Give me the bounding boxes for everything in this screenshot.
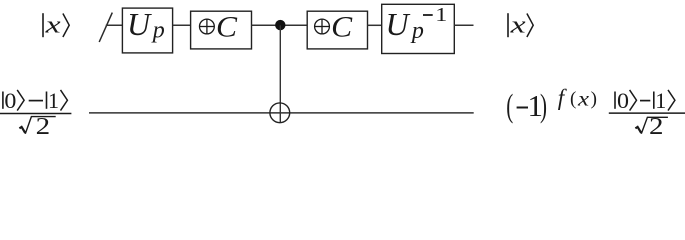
- svg-text:2: 2: [36, 114, 51, 136]
- gate U_p box: [122, 8, 172, 53]
- gate xor-C 2 oplus symbol: [315, 19, 330, 34]
- wire xor-C 2 to U_p inverse: [368, 24, 382, 26]
- svg-text:(: (: [570, 89, 576, 110]
- node |x> output label: [508, 13, 533, 39]
- svg-text:1: 1: [435, 4, 447, 26]
- svg-text:0: 0: [4, 88, 16, 113]
- svg-text:x: x: [509, 13, 526, 39]
- svg-text:U: U: [127, 6, 152, 42]
- wire U_p to xor-C 1: [173, 24, 191, 26]
- svg-text:(: (: [506, 89, 513, 125]
- svg-text:U: U: [386, 6, 411, 42]
- gate xor-C 1 box: [191, 11, 252, 49]
- wire stub after U_p inverse: [454, 24, 473, 26]
- svg-text:0: 0: [617, 88, 629, 113]
- svg-text:x: x: [577, 87, 590, 111]
- ancilla output fraction (|0>-|1>)/sqrt2: [609, 88, 685, 140]
- bus slash: [99, 13, 112, 42]
- svg-text:x: x: [44, 13, 61, 39]
- svg-text:): ): [540, 89, 547, 125]
- svg-text:): ): [591, 89, 597, 110]
- gate xor-C 1 oplus symbol: [200, 19, 215, 34]
- svg-text:1: 1: [655, 88, 666, 113]
- svg-text:C: C: [331, 10, 353, 43]
- node |x> input label: [43, 13, 69, 39]
- svg-text:1: 1: [48, 88, 59, 113]
- gate U_p inverse label: [386, 4, 448, 44]
- ancilla input label fraction (|0>-|1>)/sqrt2: [0, 88, 71, 140]
- CNOT target oplus: [270, 103, 290, 123]
- wire slash to U_p: [106, 24, 123, 26]
- svg-text:2: 2: [649, 114, 664, 136]
- gate xor-C 2 box: [307, 11, 367, 49]
- ancilla wire: [89, 112, 474, 114]
- svg-text:C: C: [216, 10, 238, 43]
- gate U_p label: [127, 6, 165, 43]
- svg-text:f: f: [558, 85, 568, 110]
- vertical control wire: [279, 25, 281, 122]
- gate U_p inverse box: [382, 4, 455, 53]
- wire xor-C 1 to control node: [252, 24, 308, 26]
- ancilla output label (-1)^f(x): [506, 85, 597, 124]
- svg-text:p: p: [151, 17, 165, 43]
- svg-text:p: p: [410, 18, 424, 44]
- control dot node: [275, 20, 285, 30]
